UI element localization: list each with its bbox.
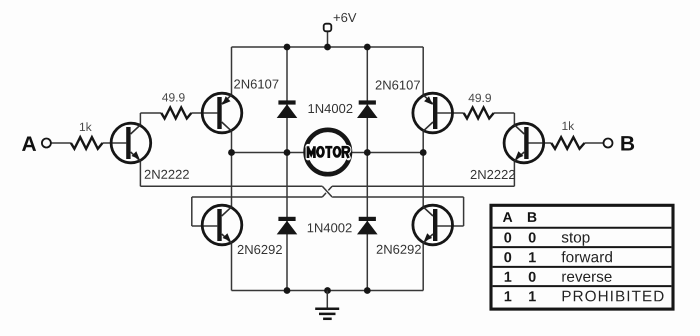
label 1N4002 top — [309, 104, 353, 113]
junction top rail right diode — [364, 44, 371, 51]
wire left lower column (motor rail to Q5 collector) — [231, 153, 233, 208]
transistor 2N2222 left (Q3) — [111, 123, 151, 163]
wire crossover diagonal A (hops over B) — [322, 186, 332, 197]
resistor 49.9 (right) — [464, 108, 494, 119]
junction motor rail left column — [228, 149, 235, 156]
terminal B — [604, 139, 613, 148]
junction motor rail right diode — [364, 149, 371, 156]
truth table row 0 0 stop — [504, 232, 589, 245]
label 2N6292 left — [238, 245, 282, 254]
junction motor rail left diode — [284, 149, 291, 156]
terminal +6V — [324, 24, 332, 32]
wire R1 to Q3 base — [103, 142, 127, 144]
truth table row 0 1 forward — [504, 251, 612, 262]
label 1N4002 bottom — [308, 223, 352, 232]
wire left upper column (Q1 emitter to rail) — [231, 47, 233, 96]
transistor 2N6107 left (Q1) — [202, 93, 242, 133]
label 1k (A input) — [80, 122, 92, 131]
label 1k (B input) — [562, 121, 574, 130]
resistor 1k (B input) — [551, 137, 584, 149]
wire right bottom column (Q6 emitter to ground rail) — [422, 243, 424, 291]
junction top rail +6V — [324, 44, 331, 51]
label 2N6107 left — [234, 79, 278, 88]
transistor 2N2222 right (Q4) — [504, 123, 544, 163]
wire Q5 base lead — [192, 225, 218, 227]
truth table row 1 1 PROHIBITED — [505, 291, 664, 302]
label node A — [22, 137, 36, 151]
wire motor rail right — [350, 152, 424, 154]
wire ground rail — [232, 290, 424, 292]
resistor 49.9 (left) — [161, 108, 191, 119]
wire Q6 base lead — [437, 225, 463, 227]
wire +6V top rail — [232, 46, 424, 48]
junction ground rail right diode — [364, 287, 371, 294]
wire left bottom column (Q5 emitter to ground rail) — [231, 243, 233, 291]
wire Q4 collector up — [513, 113, 515, 126]
wire upper-left cross wire — [140, 185, 322, 187]
transistor 2N6292 right (Q6) — [413, 205, 453, 245]
wire Q6 base drop — [463, 197, 465, 226]
label 2N2222 left — [145, 170, 189, 179]
ground — [315, 291, 339, 319]
wire R4 to Q4 base — [529, 142, 552, 144]
label +6V — [334, 13, 357, 22]
wire upper-right cross wire — [332, 185, 514, 187]
label 49.9 (left) — [162, 93, 185, 102]
diode 1N4002 bottom-right (D4) — [357, 217, 378, 235]
motor M1 — [306, 130, 350, 174]
wire left diode column — [286, 47, 288, 291]
wire Q5 base drop — [191, 197, 193, 226]
label 2N6107 right — [376, 80, 420, 89]
wire Q3 emitter down — [139, 161, 141, 187]
wire right upper column (Q2 emitter to rail) — [422, 47, 424, 96]
wire input A to R1 — [51, 142, 71, 144]
truth table box — [491, 205, 673, 309]
resistor 1k (A input) — [71, 137, 103, 149]
truth table header A B — [503, 212, 537, 222]
junction motor rail right column — [420, 149, 427, 156]
wire right mid column (Q2 collector to motor rail) — [422, 130, 424, 153]
truth table row 1 0 reverse — [505, 272, 612, 282]
wire input B to R4 — [585, 142, 604, 144]
wire Q3 collector up — [139, 113, 141, 126]
transistor 2N6292 left (Q5) — [202, 205, 242, 245]
wire +6V terminal drop — [327, 31, 329, 47]
wire Q4 collector to R3 — [494, 112, 515, 114]
wire motor rail left — [232, 152, 307, 154]
wire right diode column — [366, 47, 368, 291]
wire lower-left cross wire — [192, 196, 322, 198]
wire Q4 emitter down — [513, 161, 515, 187]
label node B — [621, 136, 634, 150]
junction ground rail left diode — [284, 287, 291, 294]
terminal A — [42, 139, 51, 148]
label 2N6292 right — [377, 245, 421, 254]
label 2N2222 right — [471, 170, 515, 179]
label 49.9 (right) — [469, 94, 492, 103]
wire lower-right cross wire — [332, 196, 464, 198]
junction ground rail center — [324, 287, 331, 294]
diode 1N4002 top-left (D1) — [277, 100, 298, 118]
wire R3 to Q2 base — [437, 112, 463, 114]
wire R2 to Q1 base — [191, 112, 217, 114]
wire Q3 collector to R2 — [140, 112, 161, 114]
wire crossover diagonal B — [322, 186, 332, 197]
wire left mid column (Q1 collector to motor rail) — [231, 130, 233, 153]
transistor 2N6107 right (Q2) — [413, 93, 453, 133]
junction top rail left diode — [284, 44, 291, 51]
wire right lower column (motor rail to Q6 collector) — [422, 153, 424, 208]
diode 1N4002 top-right (D2) — [357, 100, 378, 118]
diode 1N4002 bottom-left (D3) — [277, 217, 298, 235]
